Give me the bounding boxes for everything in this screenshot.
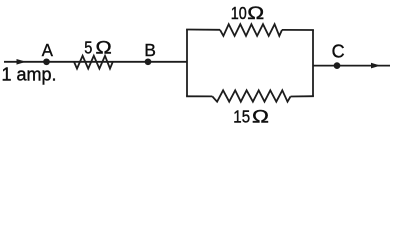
node B xyxy=(145,58,152,65)
wire input left xyxy=(4,61,187,63)
svg-text:1 amp.: 1 amp. xyxy=(2,64,57,84)
wire bottom rail right xyxy=(291,95,314,97)
arrow input current direction xyxy=(17,59,27,65)
node A xyxy=(43,58,50,65)
resistor R3 15 ohm xyxy=(212,90,290,101)
svg-text:10: 10 xyxy=(231,4,247,24)
svg-text:Ω: Ω xyxy=(247,4,264,23)
wire left vertical of parallel box xyxy=(186,29,188,96)
svg-text:15: 15 xyxy=(233,106,250,127)
svg-text:Ω: Ω xyxy=(252,107,269,126)
node C xyxy=(334,62,341,69)
svg-text:A: A xyxy=(42,39,54,60)
svg-text:B: B xyxy=(144,40,156,60)
resistor R2 10 ohm xyxy=(220,24,282,36)
wire right vertical of parallel box xyxy=(312,30,314,96)
wire top rail left xyxy=(186,29,220,31)
arrow output current direction xyxy=(371,63,381,69)
wire top rail right xyxy=(282,29,314,31)
svg-text:Ω: Ω xyxy=(95,38,112,58)
svg-text:C: C xyxy=(332,42,345,62)
resistor R1 5 ohm xyxy=(74,56,113,69)
wire output right xyxy=(313,65,390,67)
wire bottom rail left xyxy=(186,95,212,97)
svg-text:5: 5 xyxy=(84,38,92,58)
